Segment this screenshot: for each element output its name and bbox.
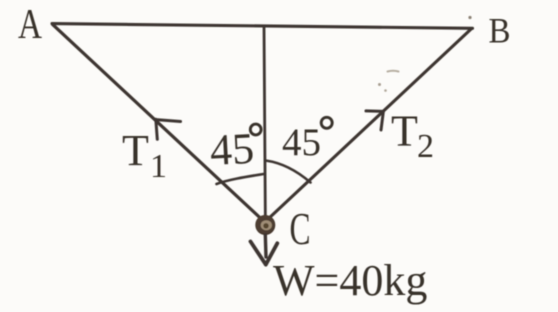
- weight arrowhead (V shape): [251, 242, 278, 265]
- left degree symbol: [250, 124, 261, 135]
- svg-text:1: 1: [150, 148, 167, 185]
- rope segment B to C (tension T2): [267, 29, 472, 220]
- svg-text:2: 2: [417, 128, 434, 165]
- svg-text:W=40kg: W=40kg: [273, 256, 427, 305]
- lighter interior of knot: [261, 220, 272, 230]
- svg-text:45: 45: [209, 124, 256, 175]
- vertical reference line from midpoint to C: [264, 26, 266, 238]
- right 45-degree angle arc: [266, 161, 311, 183]
- rope segment A to C (tension T1): [53, 24, 264, 221]
- weight arrow shaft from C downward: [264, 235, 268, 257]
- ceiling line AB: [52, 24, 473, 29]
- arrowhead on rope T2 (pointing up-right toward B): [366, 111, 383, 130]
- svg-text:T: T: [391, 107, 418, 156]
- ring/knot at point C: [255, 215, 275, 235]
- svg-text:T: T: [122, 126, 149, 175]
- svg-text:B: B: [489, 11, 511, 51]
- left 45-degree angle arc: [217, 174, 264, 184]
- faint smudge above T2 arrow: [388, 70, 399, 73]
- svg-text:45: 45: [282, 121, 321, 164]
- svg-text:C: C: [290, 204, 311, 254]
- svg-text:A: A: [18, 2, 43, 48]
- faint dot near B vertex: [468, 16, 471, 19]
- arrowhead on rope T1 (pointing up-left toward A): [156, 119, 181, 139]
- right degree symbol: [321, 117, 332, 128]
- hub dot inside ring at C: [263, 223, 268, 228]
